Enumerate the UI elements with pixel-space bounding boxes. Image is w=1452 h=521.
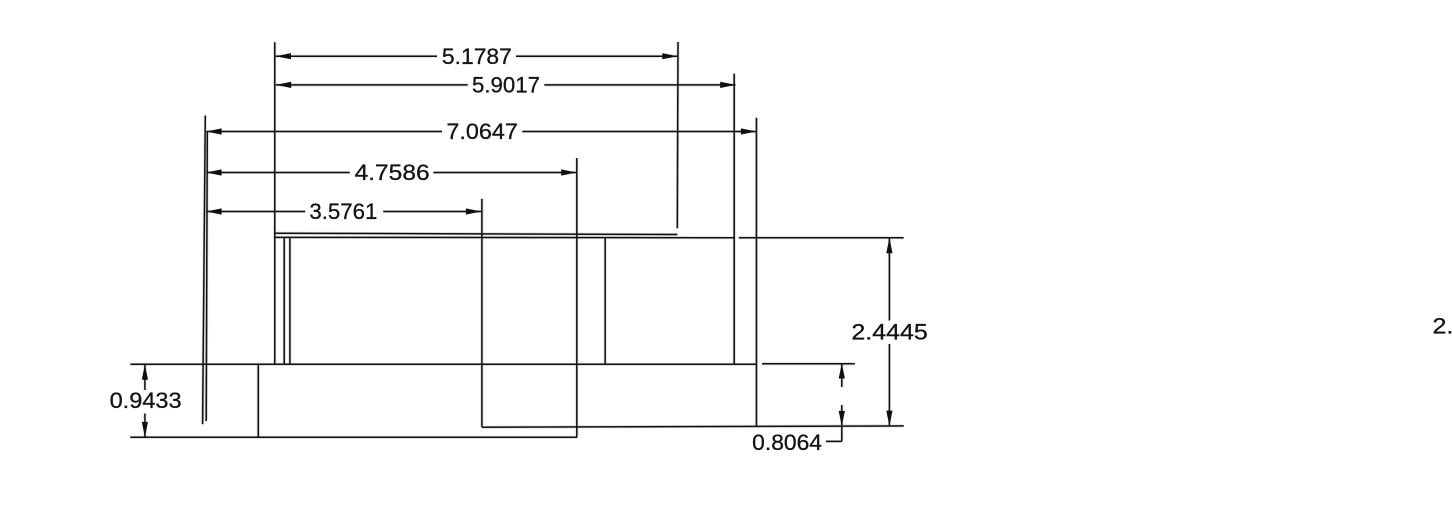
svg-text:2.4445: 2.4445 (851, 320, 928, 345)
svg-text:3.5761: 3.5761 (309, 199, 377, 224)
soft halo pass (130, 42, 904, 441)
svg-text:0.9433: 0.9433 (110, 388, 182, 413)
svg-text:7.0647: 7.0647 (446, 119, 518, 144)
svg-text:5.1787: 5.1787 (442, 44, 512, 69)
core line pass (130, 42, 904, 441)
svg-text:0.8064: 0.8064 (752, 430, 822, 455)
svg-text:4.7586: 4.7586 (355, 160, 430, 185)
svg-text:5.9017: 5.9017 (472, 73, 540, 98)
svg-text:2.4445: 2.4445 (1433, 314, 1452, 339)
